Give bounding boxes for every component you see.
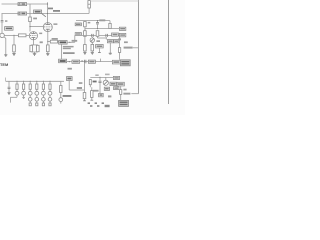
label near C1 [5, 20, 7, 22]
resistor R7 [112, 33, 119, 36]
svg-text:TEM: TEM [0, 62, 8, 67]
label near wiper [96, 40, 100, 42]
label near node A [72, 40, 78, 42]
wire cathode top bus [31, 44, 38, 46]
wire B+ vertical to V1B plate [47, 2, 49, 22]
wire plate node [29, 22, 31, 32]
capacitor C4 slope [84, 22, 87, 27]
wire bus drop [74, 35, 76, 42]
wire cathode to coupling cap [48, 41, 51, 43]
node B label box [59, 59, 67, 63]
wire K cluster drop [120, 86, 122, 90]
resistor R13 [83, 93, 86, 101]
ground [83, 53, 86, 55]
wire to ground [34, 52, 36, 54]
wire C7 branch [105, 37, 107, 40]
switch S1 [34, 10, 46, 17]
potentiometer P1 [84, 31, 87, 37]
resistor R15 [96, 45, 104, 53]
wire P1 drop [84, 36, 86, 44]
label box OUT1 [119, 27, 125, 30]
label above pot P4 [105, 74, 110, 76]
resistor R9 [88, 60, 95, 63]
label R20 value [93, 81, 97, 83]
resistor R11 dropping [88, 1, 91, 14]
wire long bus 1 [138, 0, 140, 94]
label C9 value [124, 47, 133, 49]
capacitor C5 treble [96, 21, 99, 29]
wire lower bus [67, 61, 113, 63]
label above bias bus [95, 74, 98, 76]
label C4 [88, 22, 91, 24]
control column 1 [11, 81, 19, 103]
label DC text [63, 95, 72, 97]
triode V1B [43, 23, 52, 32]
resistor R16 [84, 45, 87, 52]
resistor R10 [112, 60, 120, 64]
label box under pot [104, 87, 109, 90]
resistor R17 [91, 44, 94, 51]
node cathode junction [47, 41, 48, 42]
wire top bus [90, 76, 113, 78]
label INPUT box [5, 27, 13, 31]
wire R17 to ground [91, 51, 93, 52]
label box M2 [114, 40, 119, 43]
node grid junction [13, 35, 14, 36]
wire feed column [84, 63, 86, 92]
wire control rail [6, 80, 64, 82]
resistor R8 [72, 60, 80, 63]
wire plate feed V1A [29, 4, 31, 17]
wire bias drop [68, 81, 70, 91]
resistor R3 plate load [29, 17, 32, 22]
node junction lower [69, 61, 70, 62]
capacitor C3 coupling [50, 40, 57, 43]
label 1M [79, 82, 83, 84]
node B+ junction [47, 3, 48, 4]
wire R7 drop [119, 37, 121, 48]
resistor R18 [118, 48, 120, 53]
triode V1A [29, 32, 37, 40]
resistor R5 cathode [47, 45, 50, 52]
capacitor C2 bypass [37, 45, 40, 51]
label mid text [93, 90, 99, 92]
wire bias link [69, 89, 84, 91]
wire R19 down [120, 94, 122, 100]
wire cap to input [1, 22, 3, 33]
wire cathode bottom bus [31, 51, 38, 53]
label R3 value [33, 18, 37, 20]
label 47K [77, 87, 82, 89]
wire left drop [1, 14, 3, 20]
label C5 value [99, 19, 105, 21]
ground [91, 53, 94, 55]
control column 7 [59, 81, 63, 103]
wire R5 to ground [47, 52, 49, 54]
label V1A [39, 33, 42, 35]
label box OUT2 [119, 33, 125, 36]
wire jack ground drop [4, 37, 6, 55]
control column 3 [28, 81, 32, 106]
capacitor C8 [81, 60, 86, 64]
wire tone stack top [76, 20, 110, 22]
wire P3 to R17 [91, 42, 93, 44]
label tp marks [108, 95, 111, 97]
wire wiper link [98, 37, 107, 39]
label box L1 [75, 23, 81, 26]
wire top mains rail [2, 3, 48, 5]
wire node A right [67, 41, 75, 43]
control column 5 [42, 81, 46, 106]
label gray block TP3 [119, 100, 129, 106]
label plus right [123, 89, 126, 91]
label box K5 [114, 87, 119, 90]
resistor R19 [120, 90, 122, 95]
wire node A down [61, 44, 63, 59]
fuse F1 [18, 3, 27, 6]
node mid junctions [97, 28, 98, 29]
capacitor C12 [99, 77, 102, 93]
potentiometer P2 [96, 31, 99, 37]
label 117VAC [48, 8, 60, 12]
wire R18 down [119, 52, 121, 59]
control column 2 [22, 81, 26, 99]
node plate junction [29, 26, 30, 27]
label box TP2 [99, 93, 104, 96]
control column 6 [48, 81, 52, 106]
wire R5 top [47, 42, 49, 45]
label C2 value [40, 41, 43, 43]
wire P2 wiper [97, 36, 99, 38]
node bus junction [99, 77, 100, 78]
label box L2 [75, 33, 81, 36]
node rail2 junction [47, 13, 48, 14]
label 47K lower [68, 68, 72, 70]
wire long bus 2 [168, 0, 170, 104]
label box K1 [113, 76, 119, 79]
wire top feed [90, 0, 138, 2]
fuse F2 [18, 12, 27, 15]
wire M1 drop [109, 43, 111, 53]
ground [109, 52, 112, 55]
node A label box [59, 41, 68, 45]
resistor R2 grid leak [13, 45, 16, 52]
node junction [69, 42, 70, 43]
resistor R4 cathode [30, 45, 33, 51]
control column 4 [35, 81, 39, 106]
wire cap to bass label [58, 41, 61, 43]
wire second mains rail [2, 13, 90, 15]
label right text [124, 41, 128, 43]
label box K4 [117, 82, 124, 86]
wire to ground [13, 52, 15, 54]
wire treble branch [84, 29, 86, 31]
node top junction [97, 20, 98, 21]
wire R16 to ground [84, 51, 86, 52]
resistor R14 [90, 87, 93, 100]
wire jack to grid resistor [4, 34, 18, 36]
node bottom marks [88, 102, 110, 107]
label middle text [63, 46, 75, 54]
wire V1A cathode [32, 40, 34, 45]
label V1B [53, 23, 57, 25]
resistor R20 [89, 80, 91, 88]
ground [46, 54, 49, 56]
capacitor C7 [106, 34, 108, 37]
label box K3 [110, 82, 116, 85]
wire grid leak drop [13, 35, 15, 45]
potentiometer P3 knob [90, 38, 94, 42]
label C11 value [123, 93, 130, 95]
wire C4 bottom [84, 27, 86, 31]
resistor R6 [109, 21, 111, 29]
wire V1B cathode [47, 32, 49, 42]
potentiometer P4 [103, 77, 108, 85]
resistor R1 grid stopper [18, 34, 26, 37]
ground [12, 54, 15, 56]
capacitor C6 [92, 34, 94, 37]
ground [4, 55, 7, 57]
wire to V1A grid [26, 34, 29, 36]
wire riser lower row [99, 59, 101, 62]
wire tone lower bus [75, 34, 120, 36]
capacitor C10 [8, 81, 11, 92]
label box M1 [107, 40, 113, 43]
wire C9 to bus [133, 47, 139, 49]
capacitor C1 [1, 20, 4, 22]
wire plate to V1B grid [30, 26, 43, 28]
ground [7, 93, 10, 95]
label C3 value [52, 38, 58, 40]
label gray block TP1 [120, 60, 130, 66]
wire C11 to bus [131, 93, 138, 95]
wire C6 to pot [91, 37, 93, 38]
ground [33, 54, 36, 56]
wire tone mid bus [85, 28, 120, 30]
wire rail feed [5, 78, 7, 82]
label tap [118, 38, 121, 40]
input jack J1 [0, 33, 4, 37]
label BIAS box [67, 77, 73, 81]
